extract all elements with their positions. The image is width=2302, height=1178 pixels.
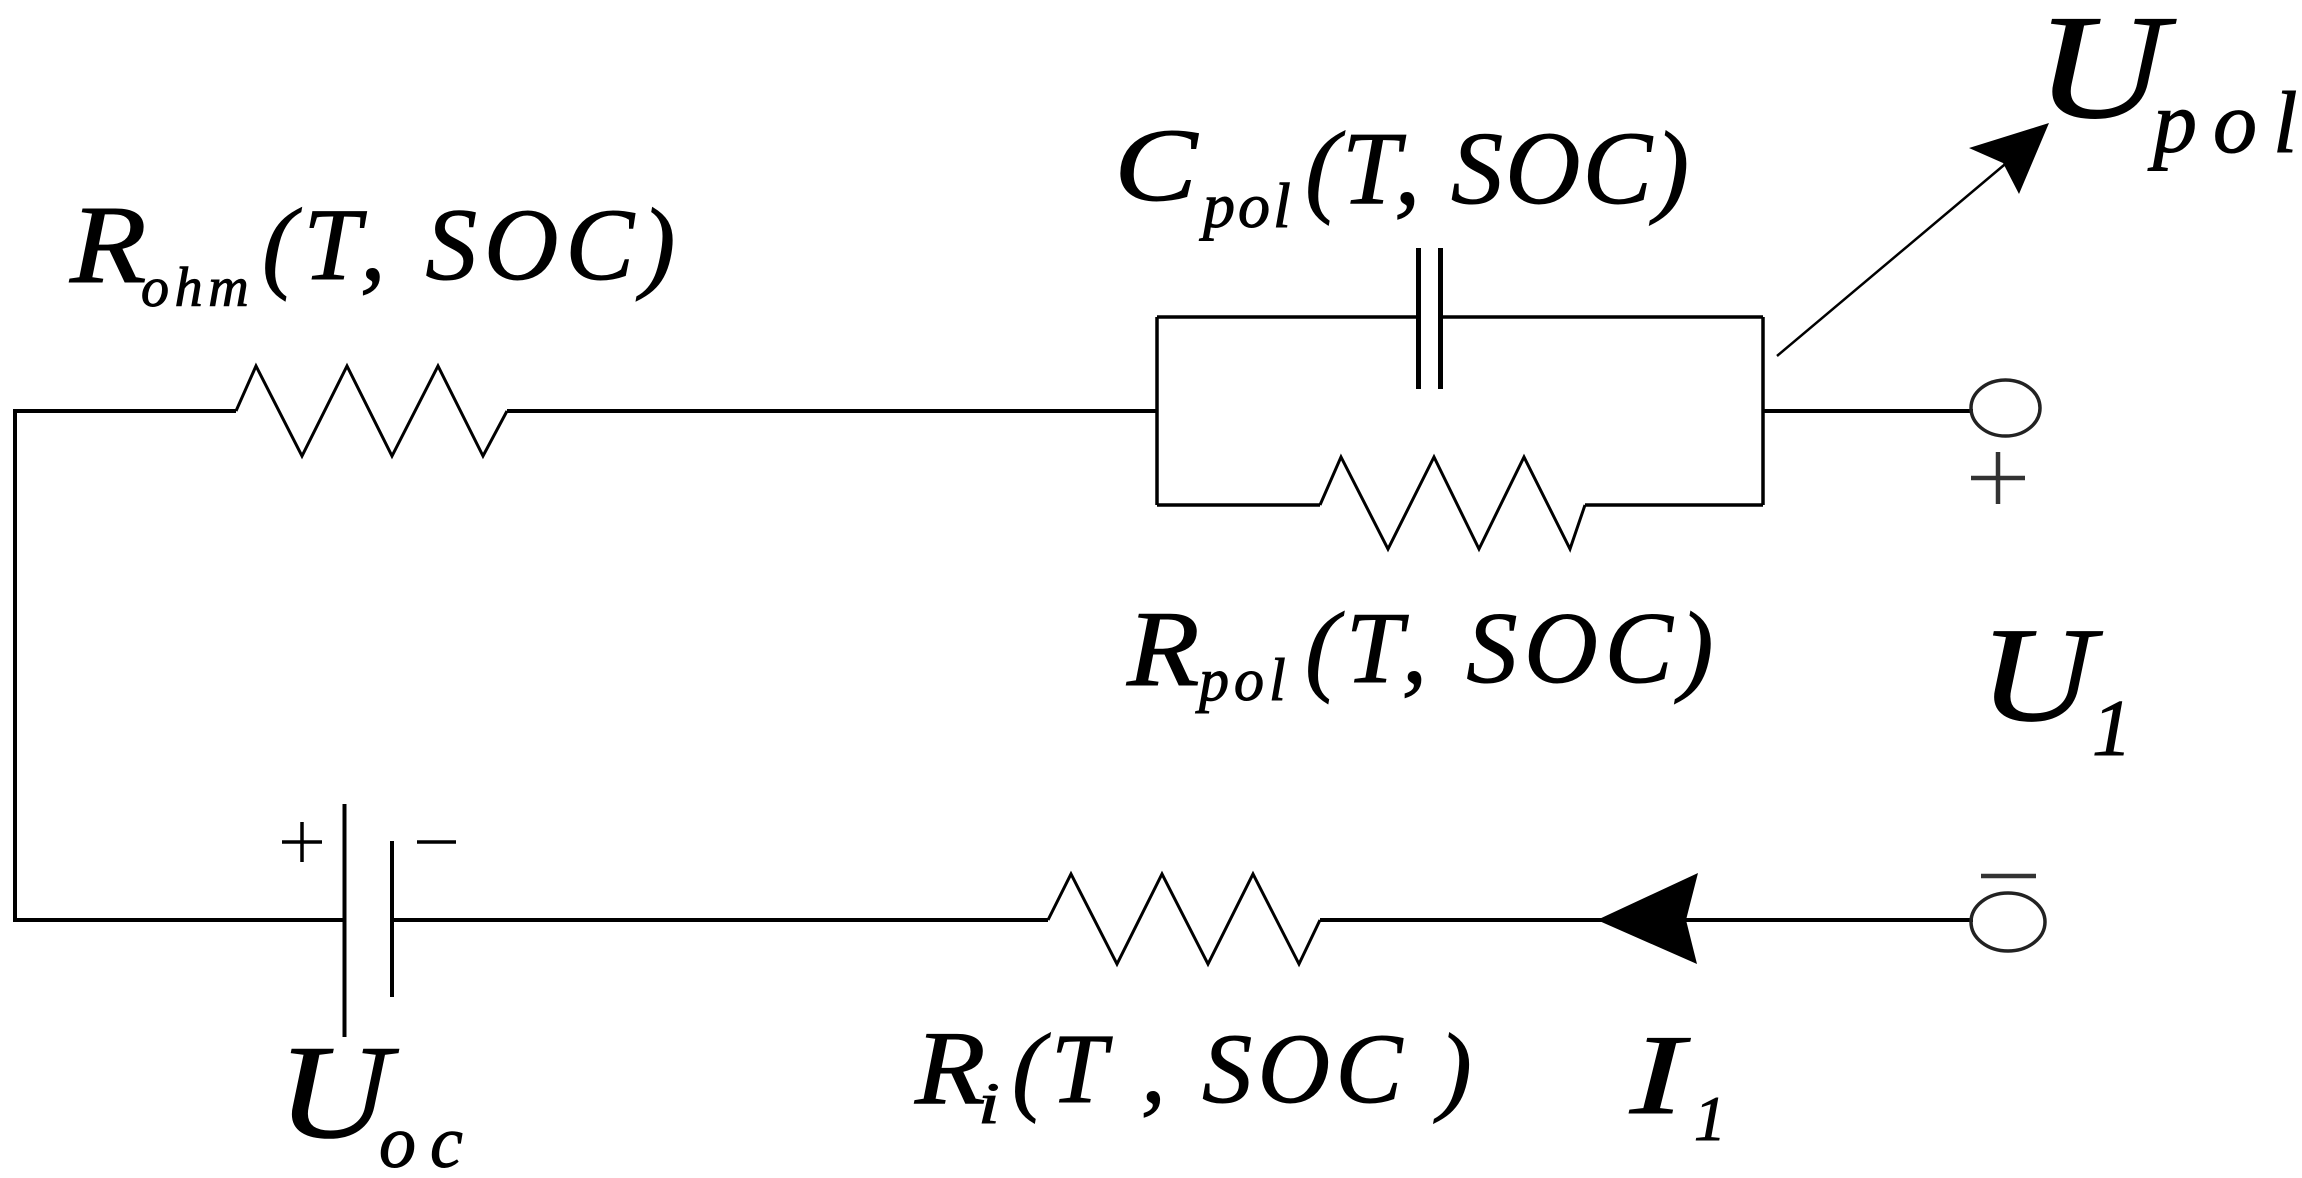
svg-text:pol: pol (1195, 647, 1291, 713)
svg-text:pol: pol (1199, 170, 1294, 241)
svg-text:ohm: ohm (141, 257, 254, 319)
svg-text:(T, SOC): (T, SOC) (1305, 111, 1691, 226)
svg-text:1: 1 (2092, 685, 2132, 773)
svg-text:R: R (69, 183, 147, 307)
svg-text:(T, SOC): (T, SOC) (262, 188, 682, 302)
svg-text:I: I (1629, 1012, 1691, 1138)
svg-text:R: R (914, 1010, 986, 1126)
svg-text:(T, SOC): (T, SOC) (1305, 592, 1720, 705)
svg-text:1: 1 (1694, 1083, 1726, 1154)
svg-text:U: U (1979, 599, 2103, 749)
svg-text:pol: pol (2147, 75, 2302, 172)
svg-text:i: i (978, 1072, 1000, 1136)
svg-text:R: R (1126, 589, 1200, 709)
svg-text:C: C (1114, 108, 1199, 223)
svg-text:(T , SOC ): (T , SOC ) (1012, 1013, 1477, 1124)
svg-text:oc: oc (379, 1102, 477, 1178)
